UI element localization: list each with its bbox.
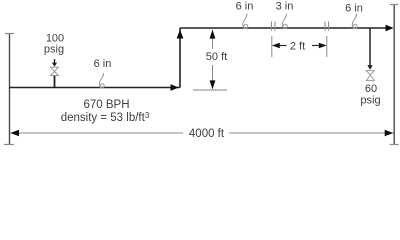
- dimension 2 ft: [272, 36, 327, 57]
- valve V1 inlet stem: [52, 59, 57, 67]
- label 100 psig: [44, 33, 64, 56]
- svg-text:6 in: 6 in: [94, 58, 112, 70]
- svg-text:density = 53 lb/ft3: density = 53 lb/ft3: [61, 111, 150, 124]
- pipe-size symbol S1: [99, 73, 104, 88]
- svg-text:50 ft: 50 ft: [206, 51, 227, 63]
- valve V1 outlet stem: [54, 76, 56, 88]
- wire upper pipe: [180, 27, 389, 29]
- svg-text:6 in: 6 in: [345, 3, 363, 15]
- svg-text:6 in: 6 in: [236, 1, 254, 13]
- right boundary line: [390, 5, 399, 146]
- label 6 in (first on upper pipe): [236, 1, 254, 13]
- dimension 4000 ft: [10, 128, 394, 140]
- fitting tick pair T2: [325, 22, 329, 31]
- flow arrow at upper pipe outlet: [386, 25, 394, 32]
- svg-text:psig: psig: [360, 95, 380, 107]
- ground reference tick for 50 ft: [193, 89, 227, 91]
- svg-text:3 in: 3 in: [276, 1, 294, 13]
- wire branch to valve V2: [367, 28, 372, 70]
- label 60 psig: [360, 83, 380, 107]
- label 6 in (second on upper pipe): [345, 3, 363, 15]
- flow arrow on lower pipe: [171, 84, 179, 91]
- left boundary line: [4, 34, 14, 146]
- wire riser pipe: [179, 28, 181, 88]
- svg-text:670 BPH: 670 BPH: [83, 99, 129, 111]
- flow arrow on riser: [177, 30, 184, 39]
- svg-text:psig: psig: [44, 44, 64, 56]
- pipe-size symbol S3: [282, 14, 287, 29]
- pipe-size symbol S4: [352, 14, 357, 29]
- dimension 50 ft: [201, 30, 231, 90]
- valve V1 (100 psig): [51, 67, 59, 75]
- label 3 in: [276, 1, 294, 13]
- wire lower pipe: [10, 87, 181, 89]
- label 6 in (lower pipe): [94, 58, 112, 70]
- fitting tick pair T1: [272, 22, 276, 31]
- svg-text:4000 ft: 4000 ft: [189, 128, 225, 140]
- svg-text:60: 60: [365, 83, 377, 95]
- label 670 BPH: [83, 99, 129, 111]
- label density = 53 lb/ft3: [61, 111, 150, 124]
- valve V2 (60 psig): [366, 71, 374, 81]
- pipe-size symbol S2: [243, 14, 248, 29]
- svg-text:2 ft: 2 ft: [290, 41, 305, 53]
